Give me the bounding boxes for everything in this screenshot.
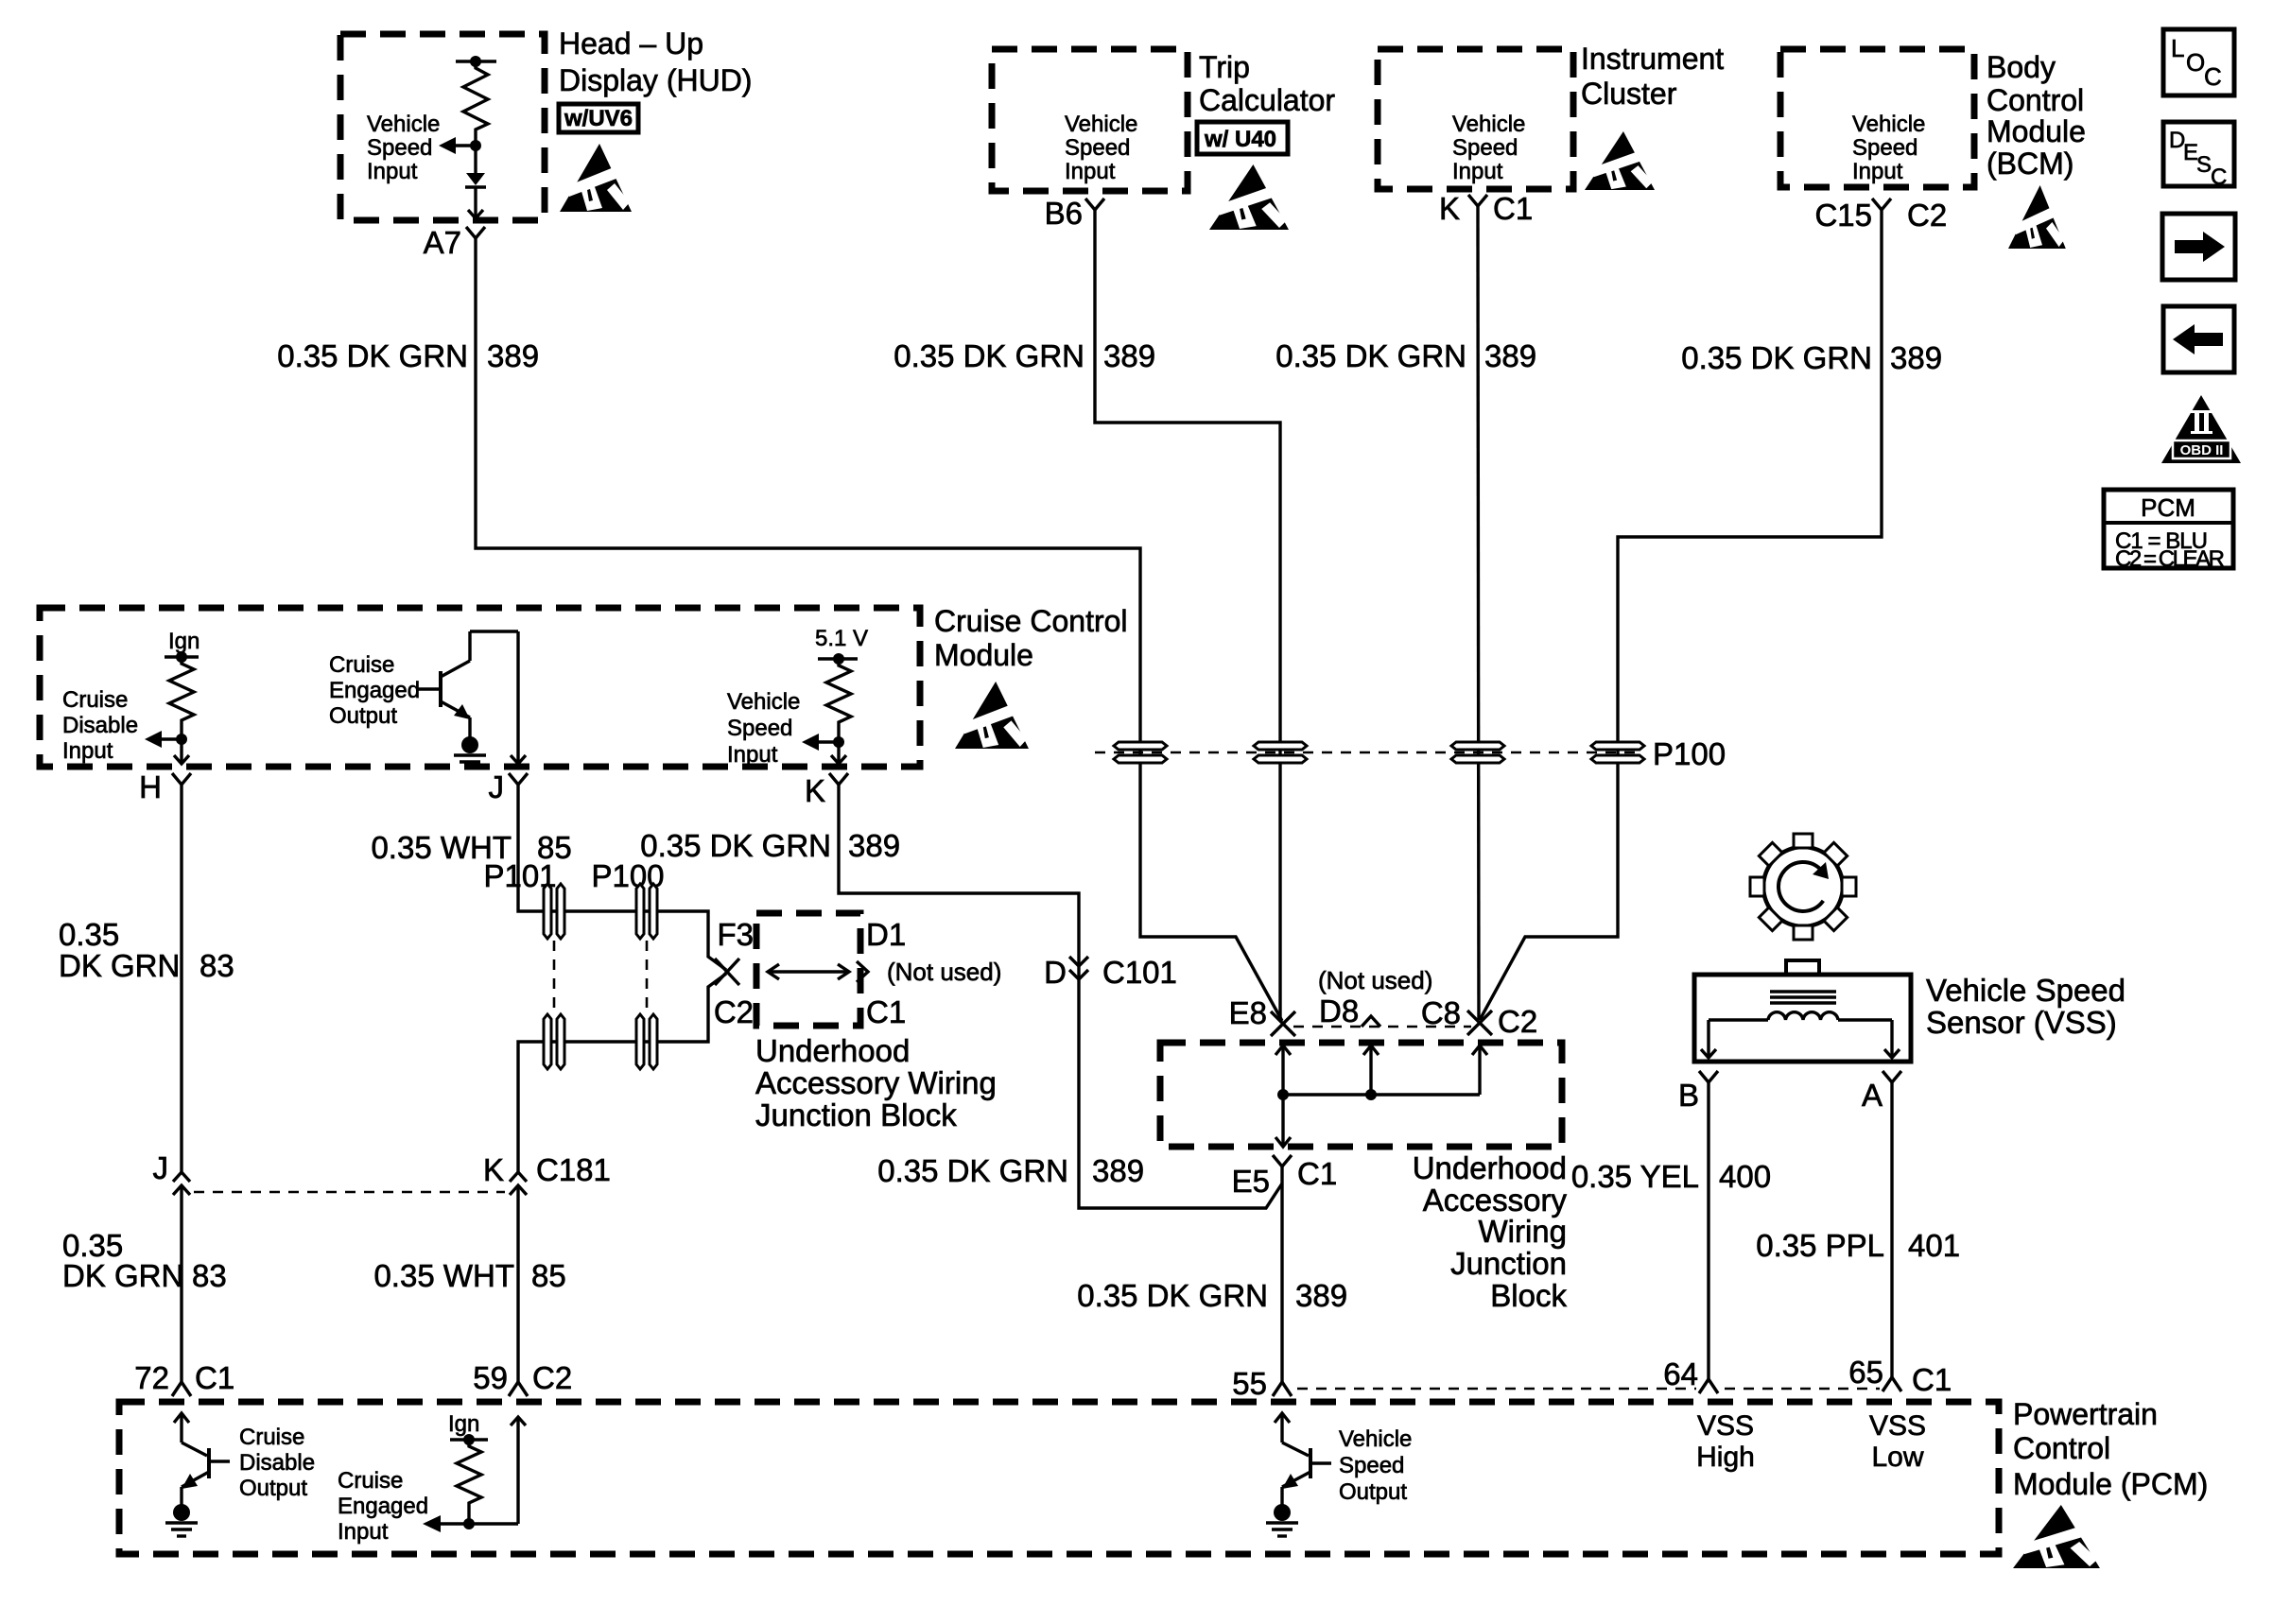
resistor (cruise vehicle speed input): [826, 659, 851, 738]
svg-text:Input: Input: [1065, 159, 1116, 184]
svg-text:Speed: Speed: [367, 135, 432, 161]
wire label 0.35 PPL 401: [1756, 1228, 1960, 1263]
svg-text:Vehicle: Vehicle: [1852, 112, 1925, 137]
pin E5/C1: [1232, 1155, 1338, 1199]
svg-text:Cruise Control: Cruise Control: [934, 604, 1128, 638]
svg-text:Output: Output: [329, 703, 397, 729]
wire 83 from C181 down to PCM 72: [180, 1185, 182, 1373]
wire 85 from C181 down to PCM 59: [516, 1185, 519, 1373]
svg-text:Calculator: Calculator: [1199, 83, 1335, 117]
DESC legend box: [2163, 122, 2234, 190]
wire label 0.35 DK GRN 389 (BCM): [1681, 340, 1942, 375]
pin H: [139, 769, 191, 804]
svg-text:0.35: 0.35: [59, 917, 119, 952]
transistor Q1 Cruise Engaged Output: [416, 631, 518, 739]
svg-text:K: K: [483, 1152, 504, 1187]
svg-text:C8: C8: [1421, 995, 1461, 1030]
svg-text:J: J: [489, 769, 505, 804]
pin 65 / C1 / VSS Low: [1848, 1355, 1952, 1473]
svg-text:J: J: [153, 1150, 169, 1185]
svg-text:55: 55: [1232, 1366, 1267, 1401]
junction block 2 internal bus: [1275, 1045, 1487, 1147]
svg-text:389: 389: [1092, 1153, 1144, 1188]
svg-text:83: 83: [192, 1258, 227, 1293]
svg-text:389: 389: [1103, 338, 1155, 373]
wire 85 from pin J through P101/P100: [518, 799, 726, 970]
svg-text:Vehicle Speed: Vehicle Speed: [1926, 973, 2126, 1008]
svg-text:C15: C15: [1814, 198, 1872, 233]
wire to pin J with arrowhead: [511, 631, 526, 764]
VSS title: [1926, 973, 2126, 1040]
svg-text:(BCM): (BCM): [1987, 147, 2073, 181]
svg-text:D1: D1: [866, 917, 906, 952]
wire label 0.35 WHT 85 (lower): [373, 1258, 565, 1293]
wire label 0.35 DK GRN 389 (IC): [1275, 338, 1536, 373]
svg-text:E5: E5: [1232, 1164, 1270, 1199]
pin A7: [424, 225, 485, 260]
svg-text:Ign: Ign: [448, 1411, 479, 1437]
label Cruise Disable Input: [62, 687, 138, 764]
svg-text:Input: Input: [338, 1519, 389, 1545]
svg-text:Module: Module: [1987, 114, 2086, 148]
wire label 0.35 DK GRN 83 (upper): [59, 917, 234, 983]
wire label 0.35 DK GRN 389 (HUD): [277, 338, 539, 373]
svg-text:0.35 PPL: 0.35 PPL: [1756, 1228, 1884, 1263]
svg-text:Speed: Speed: [1065, 135, 1130, 161]
svg-text:389: 389: [1890, 340, 1942, 375]
module Instrument Cluster box: [1378, 49, 1573, 189]
PCM title: [2013, 1397, 2208, 1501]
svg-text:Vehicle: Vehicle: [1452, 112, 1525, 137]
label Vehicle Speed Input (cruise): [727, 689, 800, 768]
svg-text:C2: C2: [1907, 198, 1947, 233]
wire label 0.35 WHT 85 (upper): [371, 830, 571, 865]
svg-text:Vehicle: Vehicle: [727, 689, 800, 715]
svg-text:0.35 YEL: 0.35 YEL: [1571, 1159, 1699, 1194]
wire label 0.35 DK GRN 83 (lower): [62, 1228, 227, 1293]
svg-text:0.35 DK GRN: 0.35 DK GRN: [277, 338, 468, 373]
svg-text:Control: Control: [2013, 1431, 2110, 1465]
wire label 0.35 DK GRN 389 (cruise K): [640, 828, 900, 863]
label Underhood Accessory Wiring Junction Block (2): [1413, 1150, 1568, 1313]
svg-text:389: 389: [487, 338, 539, 373]
pin K: [805, 773, 848, 808]
svg-text:S: S: [2196, 152, 2212, 178]
svg-text:Body: Body: [1987, 50, 2056, 84]
svg-text:C1: C1: [1493, 191, 1533, 226]
svg-text:389: 389: [848, 828, 900, 863]
reluctor tone wheel (VSS): [1750, 834, 1856, 940]
svg-text:OBD II: OBD II: [2180, 442, 2224, 458]
svg-text:Cruise: Cruise: [62, 687, 128, 713]
svg-text:A7: A7: [424, 225, 461, 260]
wire to pin K with arrowhead: [831, 742, 846, 764]
svg-text:0.35 DK GRN: 0.35 DK GRN: [1077, 1278, 1268, 1313]
svg-text:C2: C2: [1498, 1004, 1537, 1039]
Ign node (cruise disable input): [165, 629, 200, 663]
svg-text:Vehicle: Vehicle: [1065, 112, 1137, 137]
pin K / C1: [1439, 191, 1533, 226]
svg-text:B6: B6: [1045, 196, 1083, 231]
transistor Q3 Vehicle Speed Output: [1275, 1413, 1331, 1506]
option box w/UV6: [559, 104, 638, 132]
wire 389 from BCM: [1480, 227, 1882, 1020]
wire 389 from Trip Calculator B6: [1095, 227, 1280, 1019]
svg-text:Cluster: Cluster: [1581, 77, 1677, 111]
connector P100 pass-through row: [1095, 736, 1726, 771]
svg-text:DK GRN: DK GRN: [62, 1258, 183, 1293]
label Cruise Disable Output: [239, 1425, 315, 1501]
svg-text:Underhood: Underhood: [1413, 1150, 1567, 1185]
wire 400 VSS high: [1707, 1097, 1709, 1378]
Vehicle Speed Sensor (VSS) box: [1694, 975, 1911, 1062]
wire label 0.35 DK GRN 389 (E5 to 55): [1077, 1278, 1347, 1313]
svg-text:Output: Output: [1339, 1479, 1407, 1505]
right-arrow legend box: [2162, 214, 2235, 280]
pin 64 / VSS High: [1663, 1356, 1755, 1473]
connector P100 grommets: [636, 884, 657, 1069]
module Body Control Module (BCM) box: [1780, 49, 1974, 187]
svg-text:Output: Output: [239, 1476, 307, 1501]
junction block 2 dashed box: [1160, 1043, 1562, 1147]
HUD title: [559, 26, 752, 97]
svg-text:Control: Control: [1987, 83, 2084, 117]
HUD inner label Vehicle Speed Input: [367, 112, 440, 184]
pin 72 / C1: [134, 1360, 234, 1396]
wire 389 from E5 to PCM 55: [1280, 1183, 1283, 1378]
module Powertrain Control Module (PCM) box: [119, 1402, 1999, 1554]
pin B: [1678, 1071, 1718, 1113]
svg-text:Low: Low: [1871, 1442, 1923, 1473]
svg-text:Block: Block: [1490, 1278, 1567, 1313]
internal jumper arrow (junction block 1): [768, 964, 849, 979]
svg-text:E8: E8: [1229, 995, 1267, 1030]
signal arrow Vehicle Speed Input (HUD): [439, 137, 476, 154]
VSS mounting tab: [1786, 960, 1819, 975]
svg-text:5.1 V: 5.1 V: [815, 626, 868, 651]
resistor (cruise disable input): [169, 657, 194, 735]
signal arrow Cruise Engaged Input: [423, 1515, 469, 1532]
svg-text:Cruise: Cruise: [338, 1468, 403, 1494]
resistor (HUD vehicle speed input): [463, 61, 488, 142]
svg-text:C181: C181: [536, 1152, 611, 1187]
svg-text:Ign: Ign: [168, 629, 200, 654]
svg-text:B: B: [1678, 1078, 1699, 1113]
svg-text:D: D: [1044, 955, 1067, 990]
label Underhood Accessory Wiring Junction Block (1): [755, 1033, 997, 1132]
svg-text:C2: C2: [532, 1360, 572, 1395]
svg-text:85: 85: [531, 1258, 566, 1293]
svg-text:C: C: [2204, 62, 2222, 91]
VSS coil: [1768, 1012, 1838, 1020]
svg-text:D8: D8: [1319, 993, 1359, 1028]
svg-text:Underhood: Underhood: [755, 1033, 910, 1068]
svg-text:C1: C1: [195, 1360, 234, 1395]
BCM inner label: [1852, 112, 1925, 184]
svg-text:Module: Module: [934, 638, 1033, 672]
module Cruise Control Module box: [40, 608, 920, 767]
svg-text:59: 59: [473, 1360, 508, 1395]
svg-text:72: 72: [134, 1360, 169, 1395]
ESD symbol (PCM): [2013, 1505, 2100, 1568]
svg-text:Input: Input: [1852, 159, 1903, 184]
svg-text:Input: Input: [727, 742, 778, 768]
svg-text:Input: Input: [62, 738, 113, 764]
svg-text:DK GRN: DK GRN: [59, 948, 180, 983]
svg-text:P100: P100: [1653, 736, 1726, 771]
ground (cruise disable output): [165, 1504, 198, 1536]
svg-text:Junction Block: Junction Block: [755, 1097, 957, 1132]
label Cruise Engaged Input: [338, 1468, 428, 1545]
svg-text:Head – Up: Head – Up: [559, 26, 703, 60]
pin B6: [1045, 196, 1104, 231]
connector C2 face row E8/D8/C8: [1293, 1026, 1471, 1028]
svg-text:Instrument: Instrument: [1581, 42, 1724, 76]
diode-style flow symbol (HUD): [465, 146, 486, 218]
svg-text:C2: C2: [714, 994, 754, 1029]
svg-text:64: 64: [1663, 1356, 1698, 1391]
svg-text:Display (HUD): Display (HUD): [559, 63, 752, 97]
wire 389 from cruise pin K to E5: [839, 799, 1282, 1208]
svg-text:C1: C1: [1912, 1362, 1952, 1397]
svg-text:Vehicle: Vehicle: [1339, 1426, 1412, 1452]
5.1 V node (vehicle speed input): [815, 626, 868, 665]
connector C1 face row (PCM): [1297, 1388, 1880, 1391]
svg-text:Engaged: Engaged: [338, 1494, 428, 1519]
node dot (cruise vehicle speed input): [833, 736, 844, 748]
pin C15 / C2: [1814, 198, 1947, 233]
svg-text:O: O: [2186, 48, 2205, 77]
Ign node (cruise engaged input): [448, 1411, 488, 1445]
ESD symbol (HUD): [560, 144, 632, 212]
svg-text:400: 400: [1719, 1159, 1771, 1194]
pin E8/C2 crossover: [1229, 995, 1295, 1036]
ground (cruise engaged output emitter): [454, 736, 486, 768]
connector P101 grommets: [544, 884, 564, 1069]
svg-text:C101: C101: [1102, 955, 1177, 990]
node dot (cruise disable input): [176, 734, 187, 745]
svg-text:A: A: [1862, 1078, 1883, 1113]
signal arrow Cruise Disable Input: [145, 731, 182, 748]
svg-text:Disable: Disable: [62, 713, 138, 738]
left-arrow legend box: [2163, 306, 2234, 372]
svg-text:0.35 DK GRN: 0.35 DK GRN: [640, 828, 831, 863]
wire 389 from HUD A7: [476, 251, 1282, 1021]
svg-text:Wiring: Wiring: [1478, 1214, 1567, 1249]
label Vehicle Speed Output: [1339, 1426, 1412, 1505]
Instrument Cluster inner label: [1452, 112, 1525, 184]
transistor Q2 Cruise Disable Output: [174, 1413, 230, 1506]
svg-text:C1: C1: [866, 994, 906, 1029]
VSS pickup core: [1770, 992, 1836, 1003]
svg-text:Module (PCM): Module (PCM): [2013, 1467, 2208, 1501]
svg-text:Speed: Speed: [727, 716, 792, 741]
module Head-Up Display (HUD) box: [340, 34, 545, 220]
svg-text:0.35 WHT: 0.35 WHT: [373, 1258, 514, 1293]
svg-text:389: 389: [1484, 338, 1536, 373]
svg-text:K: K: [805, 773, 825, 808]
svg-text:83: 83: [200, 948, 234, 983]
svg-text:Accessory: Accessory: [1423, 1183, 1568, 1218]
option box w/ U40: [1197, 122, 1288, 154]
pin A: [1862, 1071, 1901, 1113]
svg-text:H: H: [139, 769, 162, 804]
svg-text:Speed: Speed: [1452, 135, 1518, 161]
svg-text:0.35 DK GRN: 0.35 DK GRN: [877, 1153, 1068, 1188]
svg-text:389: 389: [1295, 1278, 1347, 1313]
Trip Calculator inner label: [1065, 112, 1137, 184]
resistor (cruise engaged input): [457, 1440, 481, 1520]
svg-text:w/ U40: w/ U40: [1204, 127, 1276, 152]
wire 401 VSS low: [1890, 1097, 1893, 1376]
svg-text:K: K: [1439, 191, 1460, 226]
Trip Calculator title: [1199, 50, 1335, 117]
ground (vehicle speed output): [1266, 1504, 1298, 1536]
svg-text:C1: C1: [1297, 1156, 1337, 1191]
svg-text:0.35 DK GRN: 0.35 DK GRN: [1275, 338, 1466, 373]
svg-text:w/UV6: w/UV6: [564, 106, 633, 131]
connector C181 (pins J,K): [153, 1150, 611, 1195]
PCM connector color legend: [2104, 490, 2233, 572]
pin 59 / C2: [473, 1360, 572, 1396]
wire 59 branch with arrowhead: [469, 1417, 526, 1524]
svg-text:Speed: Speed: [1339, 1453, 1404, 1478]
svg-text:PCM: PCM: [2141, 493, 2195, 522]
BCM title: [1987, 50, 2086, 181]
svg-text:0.35 DK GRN: 0.35 DK GRN: [1681, 340, 1872, 375]
node dot (cruise engaged input): [463, 1518, 475, 1529]
svg-text:L: L: [2171, 34, 2184, 62]
svg-text:C2 = CLEAR: C2 = CLEAR: [2115, 546, 2225, 572]
node/junction dot (HUD): [470, 140, 481, 151]
svg-text:Accessory Wiring: Accessory Wiring: [755, 1065, 997, 1100]
Instrument Cluster title: [1581, 42, 1724, 111]
svg-text:Sensor (VSS): Sensor (VSS): [1926, 1005, 2117, 1040]
svg-text:401: 401: [1908, 1228, 1960, 1263]
module Trip Calculator box: [992, 49, 1188, 191]
svg-text:Vehicle: Vehicle: [367, 112, 440, 137]
junction block 1 dashed box (F3/D1): [756, 913, 860, 1026]
svg-text:VSS: VSS: [1697, 1410, 1754, 1442]
Cruise Control Module title: [934, 604, 1128, 672]
pin J: [489, 769, 529, 804]
svg-text:High: High: [1696, 1442, 1755, 1473]
pin C8/C2 crossover: [1421, 995, 1537, 1039]
pin F3/C2 crossover: [714, 917, 754, 1029]
svg-text:Cruise: Cruise: [239, 1425, 304, 1450]
svg-text:Engaged: Engaged: [329, 678, 420, 703]
LOC legend box: [2163, 29, 2234, 95]
ESD symbol (Instrument Cluster): [1585, 131, 1655, 190]
OBD II symbol: [2161, 395, 2241, 463]
svg-text:Speed: Speed: [1852, 135, 1917, 161]
svg-text:(Not used): (Not used): [1318, 966, 1432, 994]
ESD symbol (BCM): [2008, 185, 2066, 249]
svg-text:65: 65: [1848, 1355, 1883, 1390]
HUD internal pull-up node: [456, 56, 496, 67]
svg-text:Trip: Trip: [1199, 50, 1250, 84]
svg-text:(Not used): (Not used): [887, 958, 1001, 986]
connector C101 pin D: [1044, 955, 1177, 990]
svg-text:0.35 DK GRN: 0.35 DK GRN: [894, 338, 1084, 373]
pin D1/C1 (not used): [857, 917, 1001, 1029]
ESD symbol (Trip Calculator): [1209, 164, 1289, 230]
svg-text:C: C: [2211, 164, 2227, 190]
wire 83 from pin H down to C181: [180, 799, 182, 1172]
svg-text:Input: Input: [367, 159, 418, 184]
wire 389 from Instrument Cluster: [1478, 223, 1479, 1020]
wire to pin H with arrowhead: [174, 739, 189, 764]
svg-text:F3: F3: [717, 917, 754, 952]
pin 55: [1232, 1366, 1292, 1401]
svg-text:Disable: Disable: [239, 1450, 315, 1476]
wire label 0.35 DK GRN 389 (C101 to E5): [877, 1153, 1144, 1188]
ESD symbol (Cruise Control Module): [955, 682, 1029, 749]
svg-text:Powertrain: Powertrain: [2013, 1397, 2158, 1431]
wire label 0.35 YEL 400: [1571, 1159, 1771, 1194]
label Cruise Engaged Output: [329, 652, 420, 729]
svg-text:VSS: VSS: [1869, 1410, 1926, 1442]
VSS internal leads: [1701, 1020, 1900, 1058]
svg-text:Cruise: Cruise: [329, 652, 394, 678]
svg-text:Junction: Junction: [1450, 1246, 1567, 1281]
signal arrow Vehicle Speed Input (cruise): [802, 734, 839, 751]
pin D8 (not used): [1318, 966, 1432, 1028]
wire label 0.35 DK GRN 389 (Trip): [894, 338, 1155, 373]
svg-text:Input: Input: [1452, 159, 1503, 184]
